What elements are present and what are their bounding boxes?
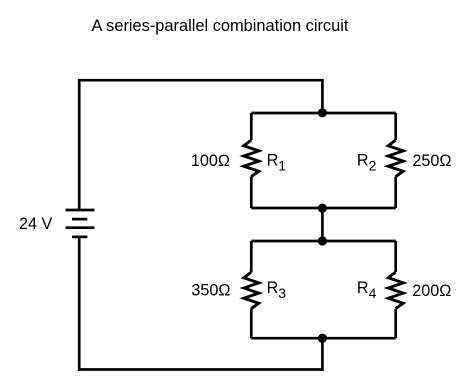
svg-text:R2: R2 (357, 151, 377, 173)
svg-text:200Ω: 200Ω (412, 282, 451, 300)
svg-text:R1: R1 (267, 151, 287, 173)
battery 24 V (66, 210, 95, 237)
svg-text:A series-parallel combination: A series-parallel combination circuit (92, 17, 349, 35)
svg-text:R4: R4 (357, 279, 377, 301)
svg-text:24 V: 24 V (19, 215, 53, 233)
resistor R1 (244, 113, 259, 208)
resistor R4 (388, 241, 403, 338)
svg-text:250Ω: 250Ω (412, 152, 451, 170)
junction node: top of R3-R4 pair (318, 236, 327, 245)
wire: bottom rail of R3-R4 parallel pair (251, 337, 395, 340)
svg-text:R3: R3 (267, 279, 287, 301)
resistor R2 (388, 113, 403, 208)
junction node: bottom of R3-R4 pair (318, 334, 327, 343)
wire: top rail of R3-R4 parallel pair (251, 240, 395, 243)
svg-text:100Ω: 100Ω (191, 152, 230, 170)
wire: battery positive to top node (left rail, top run, drop to node 1) (79, 80, 322, 210)
wire: top rail of R1-R2 parallel pair (251, 112, 395, 115)
junction node: bottom of R1-R2 pair (318, 204, 327, 213)
wire: bottom node back to battery negative (79, 237, 322, 370)
wire: series link between parallel pairs (321, 208, 324, 241)
wire: bottom rail of R1-R2 parallel pair (251, 207, 395, 210)
svg-text:350Ω: 350Ω (191, 282, 230, 300)
junction node: top of R1-R2 pair (318, 108, 327, 117)
resistor R3 (244, 241, 259, 338)
